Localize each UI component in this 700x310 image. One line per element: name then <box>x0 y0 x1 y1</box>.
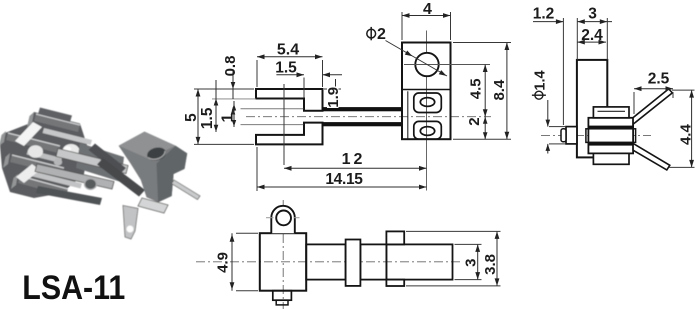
svg-text:4: 4 <box>423 1 432 18</box>
dimension 2.5 prong reach <box>634 88 673 90</box>
dimension 5.4 top of prong <box>256 60 258 87</box>
bottom view: ring tab with hole <box>271 206 295 233</box>
front view: upper blade bar <box>323 108 403 111</box>
svg-text:1.9: 1.9 <box>325 87 342 108</box>
front view: block divider line <box>402 89 451 91</box>
dimension 1.5 prong step <box>276 74 304 76</box>
dimension 2.4 <box>577 41 606 43</box>
dimension 1.9 contact depth <box>335 79 337 107</box>
bottom view: clip tab top <box>386 231 404 244</box>
side view: body stack outer <box>588 118 633 154</box>
front view: bottom fork prong with step <box>256 123 323 145</box>
dimension 14.15 overall length <box>256 147 258 191</box>
front view: lower oval hole <box>420 127 434 136</box>
side view: top tab <box>593 107 629 118</box>
dimension 3 barrel height <box>477 244 479 279</box>
front view: thin tongue edge lower <box>241 124 304 126</box>
svg-text:5.4: 5.4 <box>277 42 299 59</box>
bottom view: bottom stub <box>273 291 292 301</box>
svg-text:2.5: 2.5 <box>648 71 670 88</box>
svg-text:12: 12 <box>342 151 366 168</box>
svg-text:2: 2 <box>377 26 386 43</box>
front view: vertical centerline through block holes <box>426 31 428 191</box>
side view: lower prong blade <box>633 143 670 170</box>
bottom view: shaft section 1 <box>306 244 345 279</box>
bottom view: horizontal centerline <box>196 261 460 263</box>
svg-text:1.2: 1.2 <box>533 6 555 23</box>
dimension 1.5 left vertical <box>215 80 217 132</box>
front view: mounting hole circle phi2 <box>415 53 438 76</box>
front view: upper oval hole <box>420 98 434 107</box>
svg-text:0.8: 0.8 <box>222 56 239 77</box>
front view: block inner wall <box>407 91 409 138</box>
front view: top fork prong with step <box>256 89 323 111</box>
front view: connector block body <box>402 43 451 140</box>
bottom view: clip tab bottom <box>386 280 404 286</box>
bottom view: vertical centerline through ring <box>282 200 284 309</box>
side view: stub phi1.4 <box>566 127 577 144</box>
svg-text:4.9: 4.9 <box>214 252 231 273</box>
dimension 4.5 hole position <box>484 65 486 117</box>
svg-text:1.4: 1.4 <box>532 70 548 90</box>
svg-text:1: 1 <box>219 113 236 122</box>
svg-text:3: 3 <box>463 259 480 267</box>
bottom view: collar <box>346 240 361 286</box>
front view: main horizontal centerline <box>246 116 491 118</box>
dimension 12 blade length <box>283 84 285 165</box>
svg-text:LSA-11: LSA-11 <box>22 269 125 307</box>
svg-text:14.15: 14.15 <box>325 171 363 188</box>
side view: tall plate <box>577 60 607 157</box>
svg-text:3: 3 <box>588 6 597 23</box>
svg-text:5: 5 <box>183 113 200 122</box>
side view: lower dark band <box>588 142 633 145</box>
side view: middle band wider <box>586 129 636 143</box>
front view: circle horizontal centerline <box>404 64 490 66</box>
bottom view: barrel <box>386 244 452 279</box>
side view: upper dark band <box>588 126 633 129</box>
svg-text:1.5: 1.5 <box>199 107 216 129</box>
bottom view: main body <box>260 233 306 291</box>
front view: thin tongue edge upper <box>241 108 304 110</box>
front view: upper contact cavity <box>414 93 442 113</box>
photo: product picture of LSA-11 connector <box>0 108 200 240</box>
dimension 1 tongue thickness <box>233 101 235 127</box>
dimension 0.8 prong thickness <box>232 71 234 99</box>
dimension 5 fork height <box>197 89 199 144</box>
front view: lower blade bar <box>323 123 403 126</box>
side view: top tab step line <box>598 110 626 112</box>
side view: upper prong blade <box>633 89 672 124</box>
svg-text:4.4: 4.4 <box>678 124 695 146</box>
dimension phi2 leader <box>386 41 448 77</box>
side view: bottom tab <box>593 153 629 164</box>
dimension 1.2 <box>533 21 563 23</box>
dimension 3.8 collar height <box>496 231 498 286</box>
front view: prong bottom edge extension <box>212 98 256 100</box>
svg-text:3.8: 3.8 <box>482 254 499 275</box>
dimension 2 lower section <box>484 117 486 140</box>
svg-text:1.5: 1.5 <box>275 59 297 76</box>
svg-text:2.4: 2.4 <box>581 27 603 44</box>
svg-text:2: 2 <box>466 117 483 125</box>
bottom view: shaft section 2 <box>360 244 386 279</box>
svg-text:8.4: 8.4 <box>491 79 508 101</box>
dimension 3 plate width <box>577 21 612 23</box>
dimension 4.9 body height <box>231 233 233 291</box>
dimension 4.4 prong span <box>691 90 693 167</box>
svg-text:4.5: 4.5 <box>468 78 485 99</box>
extension lines top dims <box>562 18 564 125</box>
side view: horizontal centerline <box>541 135 651 137</box>
dimension 4 block width <box>401 12 403 40</box>
dimension 8.4 block height <box>506 43 508 140</box>
dimension phi1.4 <box>547 100 549 127</box>
front view: lower contact cavity <box>414 121 442 139</box>
